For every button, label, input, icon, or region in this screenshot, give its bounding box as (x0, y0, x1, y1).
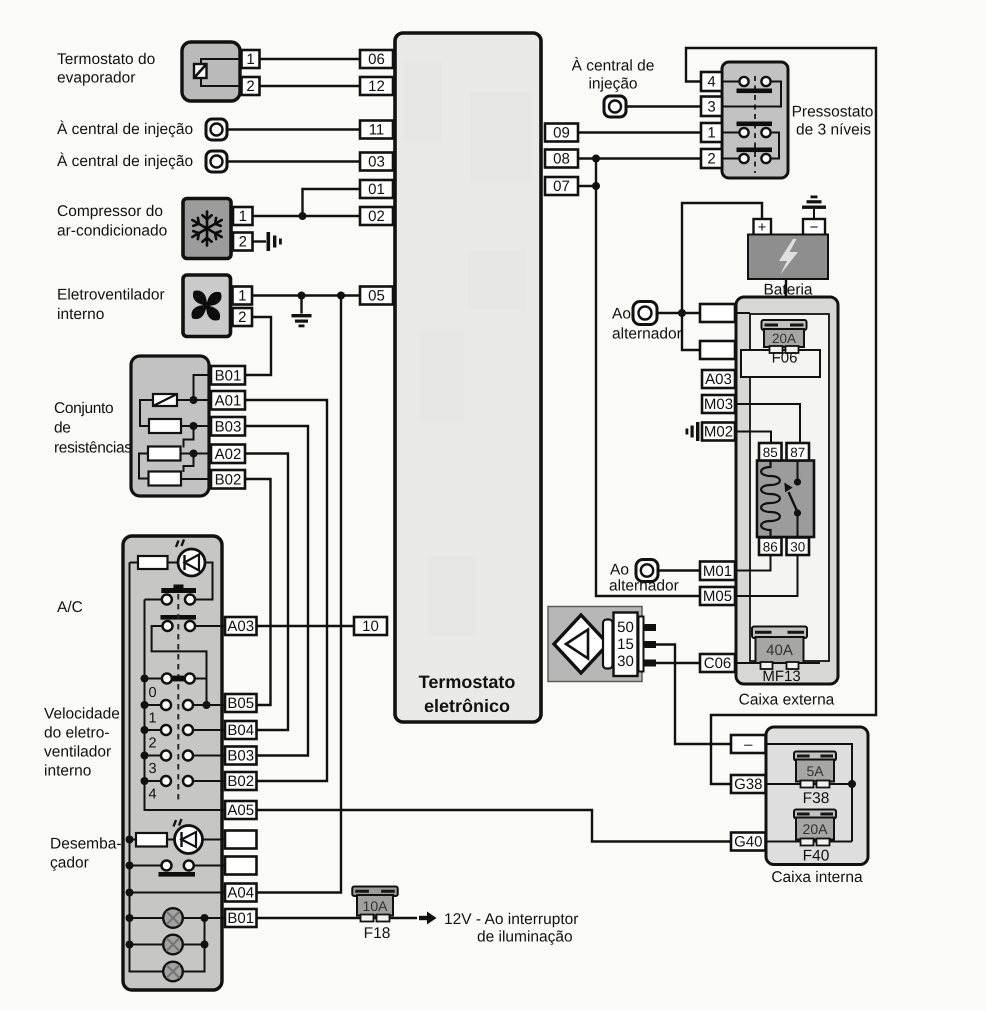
wire A03 switch left to B05 column (152, 626, 207, 705)
bus bar rect under F06 (741, 350, 820, 377)
ECU pin 05 (360, 287, 393, 305)
relay body (757, 461, 814, 538)
dot F38 junction (848, 780, 856, 788)
pressostato switch 2 (722, 122, 779, 164)
label Velocidade do eletro-ventilador interno (44, 706, 120, 780)
junction dot compressor (299, 212, 307, 220)
svg-text:A02: A02 (215, 446, 242, 463)
pin B01 resistor pack (211, 366, 245, 385)
svg-text:ventilador: ventilador (44, 744, 111, 761)
ground symbol compressor (267, 232, 282, 251)
defroster LED (174, 819, 203, 854)
svg-text:86: 86 (763, 539, 778, 554)
wire A03 to ECU 10 (257, 625, 355, 627)
wire connector right to pressostato 3 (626, 105, 701, 107)
dot defroster resistor bus (126, 836, 134, 844)
panel lamp 2 (163, 935, 183, 955)
pin G38 internal box (731, 775, 766, 793)
svg-text:M01: M01 (703, 563, 732, 580)
dot A01 (190, 396, 198, 404)
resistor pack box (131, 356, 209, 496)
svg-text:10: 10 (362, 618, 379, 635)
svg-text:2: 2 (238, 309, 246, 326)
wire fan 2 to resistor B01 (245, 317, 271, 375)
interior fan box (183, 275, 231, 337)
svg-text:15: 15 (617, 636, 634, 653)
svg-text:4: 4 (707, 74, 715, 91)
evaporator pin 1 (242, 50, 260, 68)
label Compressor do ar-condicionado (57, 203, 167, 240)
svg-text:–: – (744, 736, 753, 753)
selector position labels 0-4 (148, 685, 156, 803)
svg-text:de: de (54, 420, 71, 437)
wire relay 30 to M05 (735, 555, 798, 596)
svg-text:A03: A03 (227, 618, 254, 635)
wire B02 to AC B05 (245, 479, 271, 705)
wire fuse to A01 and B01 (177, 399, 211, 401)
ignition switch block (548, 607, 656, 682)
thermal fuse symbol (153, 394, 177, 406)
selector contact row 3 to B02 (145, 776, 226, 786)
wire 07 to junction (578, 185, 596, 187)
wire resistor2 left loop (139, 454, 149, 479)
svg-text:Ao: Ao (610, 562, 629, 579)
fuse F40 20A (794, 810, 836, 846)
wire junction up to 01 (303, 189, 361, 216)
svg-text:alternador: alternador (612, 326, 682, 343)
mechanical dashed link (177, 594, 179, 800)
junction dot 05 to A04 column (337, 292, 345, 300)
step wire A02 (184, 454, 194, 473)
resistor element 2 (148, 447, 181, 461)
ECU pin 12 (360, 77, 393, 95)
fuse F18 10A (352, 887, 398, 922)
svg-text:do eletro-: do eletro- (44, 725, 109, 742)
svg-text:2: 2 (239, 234, 247, 251)
wire 08-07 column to M05 (596, 159, 700, 597)
svg-text:interno: interno (57, 306, 104, 323)
relay pin 87 (787, 443, 810, 461)
wire fan 1 to 05 (252, 294, 360, 296)
dot 07 junction (592, 182, 600, 190)
wire 08 to pressostato 2 (578, 157, 701, 159)
alternator connector 2 (636, 560, 658, 582)
svg-text:resistências: resistências (54, 440, 132, 457)
svg-text:F18: F18 (364, 925, 391, 942)
AC switch contacts (145, 595, 196, 605)
svg-text:A03: A03 (705, 371, 732, 388)
dots lamp bus (126, 914, 134, 922)
pin B02 AC panel (225, 772, 257, 790)
blank pin 1 AC panel (225, 831, 257, 849)
svg-text:B03: B03 (215, 418, 242, 435)
svg-text:30: 30 (790, 539, 805, 554)
svg-text:08: 08 (553, 151, 570, 168)
pin B01 AC panel (225, 909, 257, 927)
wire connector 2 to 03 (227, 160, 360, 162)
resistor element 3 (149, 472, 182, 486)
dot selector bus row 1 (141, 726, 149, 734)
svg-text:M03: M03 (704, 396, 733, 413)
pin B03 resistor pack (211, 417, 245, 436)
svg-text:1: 1 (246, 51, 254, 68)
wire fan ground drop (300, 296, 302, 314)
wire A03 switch to pin A03 (195, 625, 225, 627)
svg-text:20A: 20A (803, 821, 829, 837)
label Eletroventilador interno (57, 287, 165, 324)
ECU pin 08 (545, 150, 578, 168)
wire defroster LED to blank pin 1 (203, 839, 226, 841)
svg-text:B03: B03 (227, 748, 254, 765)
label Ao alternador 1 (612, 306, 682, 343)
pin A04 AC panel (225, 884, 257, 902)
svg-text:11: 11 (369, 122, 385, 139)
wire compressor 1 to 02 (253, 215, 361, 217)
svg-text:07: 07 (553, 178, 570, 195)
svg-text:MF13: MF13 (762, 668, 800, 685)
ECU pin 07 (545, 177, 578, 195)
svg-text:0: 0 (148, 685, 156, 701)
svg-text:50: 50 (617, 619, 634, 636)
svg-text:4: 4 (148, 787, 156, 803)
internal fuse box body (766, 727, 868, 865)
AC control panel body (123, 536, 222, 990)
svg-text:1: 1 (238, 288, 246, 305)
selector bridge contact (145, 674, 207, 684)
svg-text:F38: F38 (803, 790, 830, 807)
svg-text:05: 05 (368, 288, 385, 305)
dot bridge bus (141, 675, 149, 683)
wire A01 to AC B02 (245, 400, 327, 781)
pressostato dashed line (754, 76, 756, 173)
svg-text:5A: 5A (806, 763, 824, 779)
dot defroster switch bus (126, 862, 134, 870)
svg-text:30: 30 (617, 653, 634, 670)
svg-text:B01: B01 (227, 910, 254, 927)
pin A05 AC panel (225, 801, 257, 819)
injection connector right (604, 96, 626, 117)
selector contact row 0 to B05 (145, 700, 226, 710)
relay coil (761, 461, 780, 538)
pressostato switch 1 (722, 77, 781, 107)
evaporator pin 2 (242, 77, 260, 95)
label 12V - Ao interruptor de iluminacao (444, 911, 578, 946)
ECU pin 11 (360, 121, 393, 139)
fan pin 2 (233, 308, 253, 326)
svg-text:de 3 níveis: de 3 níveis (796, 122, 871, 139)
pressostato pin 3 (701, 97, 722, 117)
svg-text:2: 2 (246, 78, 254, 95)
AC switch button bar (161, 585, 196, 594)
svg-text:B01: B01 (215, 367, 242, 384)
svg-text:2: 2 (707, 151, 715, 168)
dot 08 junction (592, 155, 600, 163)
wire alternator 2 to M01 (658, 569, 700, 571)
svg-text:B04: B04 (227, 722, 254, 739)
pin A02 resistor pack (211, 445, 245, 464)
arrow 12V (419, 912, 437, 925)
evaporator thermostat sensor (182, 42, 242, 101)
svg-text:3: 3 (707, 98, 715, 115)
svg-text:Eletroventilador: Eletroventilador (57, 287, 165, 304)
label Termostato do evaporador (57, 51, 155, 87)
wire LED1 to switch right (195, 563, 213, 600)
svg-text:A/C: A/C (57, 599, 83, 616)
pin B05 AC panel (225, 694, 257, 712)
blank pin 2 AC panel (225, 857, 257, 875)
dot selector bus row 2 (141, 752, 149, 760)
pin B02 resistor pack (211, 470, 245, 489)
svg-text:10A: 10A (363, 898, 389, 914)
svg-text:+: + (758, 219, 767, 236)
panel lamp 3 (163, 962, 183, 982)
defroster switch (130, 861, 226, 877)
ground symbol M02 (686, 422, 700, 441)
wire relay 86 to M01 (735, 555, 771, 571)
svg-text:Termostato: Termostato (419, 672, 516, 692)
fan pin 1 (233, 287, 253, 305)
pressostato pin 1 (701, 123, 722, 142)
injection connector 1 (206, 119, 227, 140)
svg-text:B02: B02 (215, 471, 242, 488)
ECU pin 09 (545, 124, 578, 142)
svg-text:Compressor do: Compressor do (57, 203, 163, 220)
ECU pin 10 (354, 617, 387, 635)
pin G40 internal box (731, 833, 766, 851)
svg-text:G40: G40 (734, 834, 762, 851)
fuse MF13 40A (752, 627, 807, 670)
wire M03 to relay 87 (735, 404, 800, 443)
svg-text:À central de injeção: À central de injeção (57, 120, 193, 138)
selector left bus (145, 600, 226, 811)
ECU pin 02 (360, 207, 393, 225)
compressor pin 1 (233, 207, 253, 225)
wire A04 into panel bus (130, 892, 226, 894)
svg-text:Pressostato: Pressostato (792, 104, 874, 121)
label Desemba-cador (50, 836, 122, 872)
step wire B03 (184, 426, 194, 448)
A03 switch contacts (163, 621, 196, 631)
dot alternator node (678, 309, 686, 317)
AC panel left bus (130, 563, 164, 972)
svg-text:01: 01 (368, 181, 385, 198)
blank pin 2 external box (700, 341, 735, 359)
pressure switch body (722, 62, 788, 178)
AC indicator resistor 1 (130, 556, 179, 569)
svg-text:Ao: Ao (612, 306, 631, 323)
wire battery to F06 (785, 279, 787, 321)
pin M01 external box (700, 562, 735, 581)
svg-text:Velocidade: Velocidade (44, 706, 120, 723)
panel lamp 1 (163, 908, 183, 928)
compressor box with snowflake (183, 199, 231, 259)
wire ignition 15 to caixa interna minus (656, 645, 731, 745)
svg-text:Desemba-: Desemba- (50, 836, 122, 853)
pin A03 external box (702, 370, 735, 388)
internal box inner loop wire (766, 744, 852, 842)
big loop wire pressostato 4 to G38 (686, 48, 876, 784)
svg-text:87: 87 (790, 445, 805, 460)
wire A04 to 05 junction column (257, 296, 342, 893)
alternator connector 1 (633, 302, 657, 325)
A03 switch bar (161, 615, 197, 620)
ECU pin 03 (360, 153, 393, 171)
defroster resistor (130, 833, 175, 847)
wire battery plus to alternator node (682, 203, 762, 350)
relay pin 85 (759, 443, 782, 461)
svg-text:B05: B05 (227, 695, 254, 712)
pin M02 external box (702, 423, 735, 441)
svg-text:interno: interno (44, 763, 91, 780)
label Conjunto de resistencias (54, 400, 132, 457)
svg-text:À central de injeção: À central de injeção (57, 152, 193, 170)
dot selector bus row 3 (141, 777, 149, 785)
wire ignition 30 to C06 (656, 662, 700, 664)
ECU Termostato eletronico (395, 33, 541, 722)
svg-text:eletrônico: eletrônico (424, 696, 510, 716)
fuse F38 5A (794, 752, 836, 788)
wire G38 through F38 (766, 783, 853, 785)
pressostato pin 4 (701, 72, 722, 91)
svg-text:A01: A01 (215, 392, 242, 409)
battery (748, 219, 828, 279)
pin minus internal box (731, 735, 766, 753)
dot A04 bus (126, 889, 134, 897)
svg-text:1: 1 (707, 125, 715, 142)
label A central de injecao right (572, 57, 655, 93)
wire A05 to G40 (257, 810, 732, 842)
svg-text:A04: A04 (227, 885, 254, 902)
svg-text:02: 02 (368, 208, 385, 225)
svg-text:C06: C06 (704, 655, 732, 672)
svg-text:M02: M02 (704, 424, 733, 441)
junction dot fan-ground (298, 292, 306, 300)
svg-text:evaporador: evaporador (57, 70, 135, 87)
wire B03 to AC B03 (245, 426, 308, 756)
wire R1 to B03 (181, 425, 211, 427)
lamp wires (130, 917, 164, 919)
dot A02 (190, 450, 198, 458)
svg-text:20A: 20A (772, 331, 796, 346)
battery ground symbol (802, 196, 826, 220)
svg-text:85: 85 (763, 445, 778, 460)
svg-text:F06: F06 (772, 350, 798, 367)
svg-text:1: 1 (239, 208, 247, 225)
svg-text:3: 3 (148, 761, 156, 777)
svg-text:çador: çador (50, 855, 89, 872)
pin A03 AC panel (225, 617, 257, 635)
relay pin 86 (759, 538, 782, 556)
wire A02 to AC B04 (245, 454, 288, 731)
pin M05 external box (700, 587, 735, 605)
svg-text:12: 12 (368, 78, 385, 95)
AC indicator LED 1 (176, 540, 205, 577)
pin B03 AC panel (225, 747, 257, 765)
external box inner frame (750, 314, 829, 661)
ECU pin 01 (360, 180, 393, 198)
wire B01 to fuse F18 and arrow (257, 917, 418, 919)
svg-text:G38: G38 (734, 776, 762, 793)
svg-text:12V - Ao interruptor: 12V - Ao interruptor (444, 911, 578, 928)
selector contact row 1 to B04 (145, 725, 226, 735)
selector contact row 2 to B03 (145, 751, 226, 761)
svg-text:Conjunto: Conjunto (54, 400, 113, 417)
pin B04 AC panel (225, 721, 257, 739)
pin A01 resistor pack (211, 391, 245, 410)
pressostato pin 2 (701, 149, 722, 168)
svg-text:09: 09 (553, 125, 570, 142)
compressor pin 2 (233, 233, 253, 251)
wire R2 to A02 (181, 453, 212, 455)
svg-text:−: − (810, 219, 819, 236)
svg-text:de iluminação: de iluminação (477, 929, 573, 946)
svg-text:40A: 40A (766, 642, 793, 659)
wire alternator 1 (657, 312, 700, 314)
wire thermal fuse left loop (140, 400, 153, 426)
svg-text:1: 1 (148, 711, 156, 727)
svg-text:ar-condicionado: ar-condicionado (57, 223, 167, 240)
svg-text:2: 2 (148, 736, 156, 752)
fuse F06 20A (762, 320, 807, 353)
blank pin 1 external box (700, 304, 735, 322)
wire M02 to relay 85 (735, 432, 771, 444)
wire blank pin 1 to frame (735, 312, 750, 314)
svg-text:injeção: injeção (588, 76, 637, 93)
wire 09 to pressostato 1 (578, 131, 701, 133)
svg-text:F40: F40 (803, 848, 830, 865)
dot B03 (190, 422, 198, 430)
wire G40 through F40 (766, 841, 853, 843)
wire evaporator 1 to 06 (260, 58, 361, 60)
svg-text:Caixa externa: Caixa externa (739, 692, 835, 709)
svg-text:M05: M05 (703, 588, 732, 605)
pin M03 external box (702, 395, 735, 413)
ground symbol fan (292, 314, 312, 327)
wire connector 1 to 11 (227, 128, 360, 130)
relay pin 30 (787, 538, 810, 556)
svg-text:Termostato do: Termostato do (57, 51, 155, 68)
dot B05 junction (203, 701, 211, 709)
wire R3 to B02 (181, 478, 211, 480)
ECU pin 06 (360, 50, 393, 68)
dot selector bus row 0 (141, 701, 149, 709)
svg-text:Caixa interna: Caixa interna (771, 869, 863, 886)
svg-text:03: 03 (368, 154, 385, 171)
wire compressor 2 to ground (253, 240, 267, 242)
svg-text:À central de: À central de (572, 57, 655, 75)
wire C06 through MF13 (735, 662, 820, 664)
label Pressostato de 3 niveis (792, 104, 874, 139)
resistor element 1 (149, 419, 181, 433)
svg-text:06: 06 (368, 51, 385, 68)
injection connector 2 (206, 151, 227, 172)
svg-text:B02: B02 (227, 773, 254, 790)
pin C06 external box (700, 654, 735, 672)
external fuse box body (736, 297, 838, 684)
label Ao alternador 2 (609, 562, 679, 595)
svg-text:A05: A05 (227, 802, 254, 819)
relay contact (784, 461, 801, 538)
wire evaporator 2 to 12 (260, 85, 361, 87)
